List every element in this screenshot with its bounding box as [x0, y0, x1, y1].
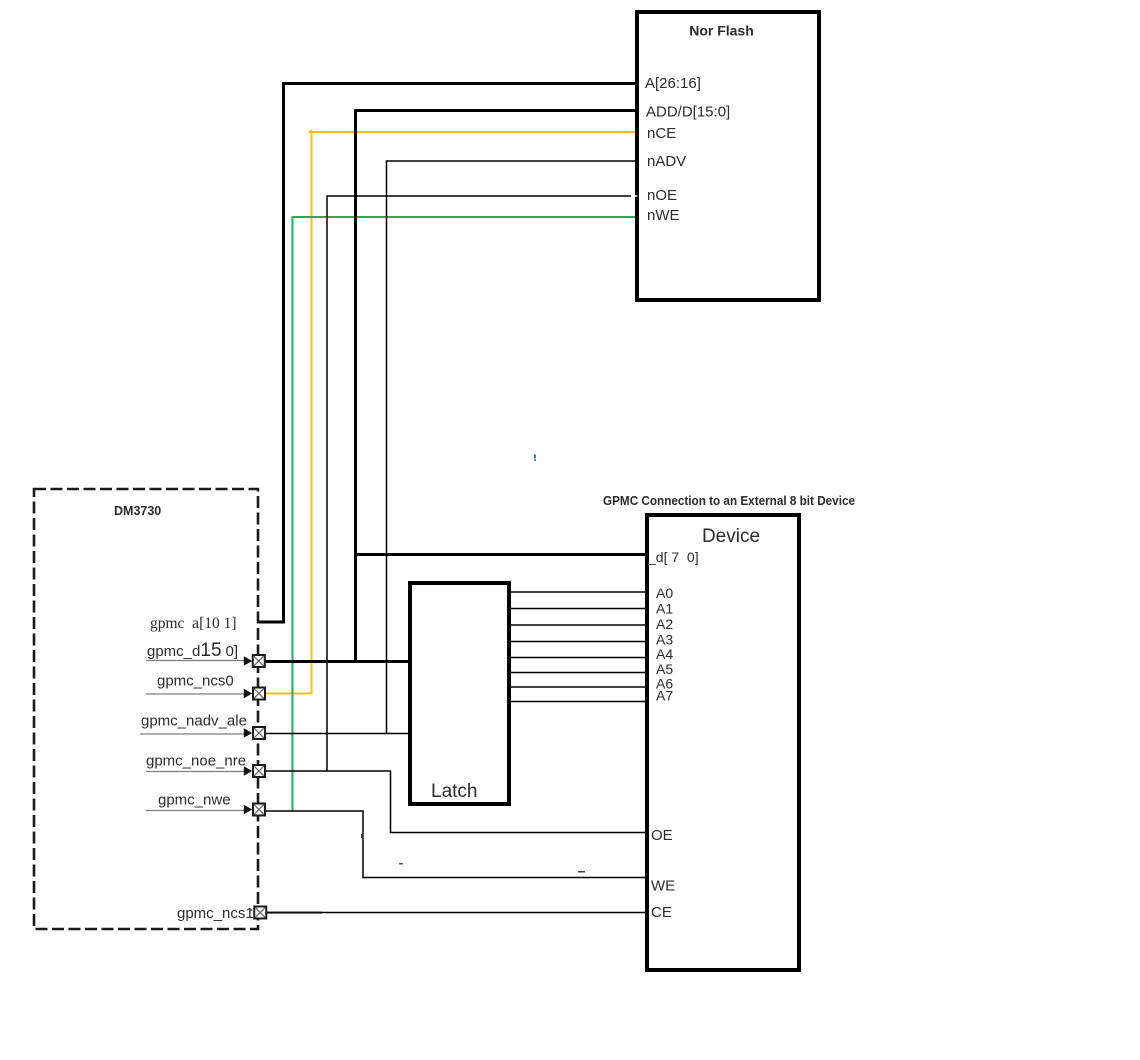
svg-text:A0: A0	[656, 585, 673, 601]
svg-text:A7: A7	[656, 688, 673, 704]
svg-text:gpmc_noe_nre: gpmc_noe_nre	[146, 753, 246, 770]
svg-text:A[26:16]: A[26:16]	[645, 75, 701, 92]
svg-text:A1: A1	[656, 601, 673, 617]
svg-text:gpmc_nwe: gpmc_nwe	[158, 792, 231, 809]
svg-text:_d[ 7 0]: _d[ 7 0]	[647, 549, 699, 565]
svg-text:gpmc a[10 1]: gpmc a[10 1]	[150, 615, 237, 632]
svg-text:Latch: Latch	[431, 781, 477, 802]
svg-text:GPMC Connection to an External: GPMC Connection to an External 8 bit Dev…	[603, 494, 855, 508]
svg-text:CE: CE	[651, 904, 672, 921]
svg-text:nOE: nOE	[647, 187, 677, 204]
svg-text:OE: OE	[651, 827, 673, 844]
svg-text:Device: Device	[702, 526, 760, 547]
svg-text:A4: A4	[656, 646, 673, 662]
svg-text:DM3730: DM3730	[114, 504, 161, 518]
svg-text:nADV: nADV	[647, 153, 686, 170]
svg-text:nCE: nCE	[647, 125, 676, 142]
svg-text:A2: A2	[656, 616, 673, 632]
svg-text:gpmc_ncs1: gpmc_ncs1	[177, 905, 254, 922]
svg-text:gpmc_nadv_ale: gpmc_nadv_ale	[141, 713, 247, 730]
svg-text:nWE: nWE	[647, 207, 680, 224]
svg-text:gpmc_ncs0: gpmc_ncs0	[157, 673, 234, 690]
svg-text:Nor Flash: Nor Flash	[689, 23, 754, 39]
svg-text:ADD/D[15:0]: ADD/D[15:0]	[646, 104, 730, 121]
svg-text:WE: WE	[651, 878, 675, 895]
